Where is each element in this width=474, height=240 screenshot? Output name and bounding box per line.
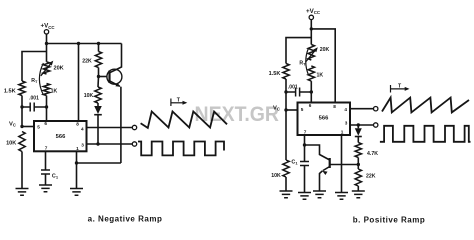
VCC terminal (a) xyxy=(44,30,48,34)
resistor 10K (b) xyxy=(283,110,289,177)
node base divider (b) xyxy=(357,163,360,166)
svg-text:3: 3 xyxy=(345,120,348,125)
svg-text:b. Positive Ramp: b. Positive Ramp xyxy=(353,216,425,225)
label 20K (b) xyxy=(320,47,330,53)
capacitor C1 (b) xyxy=(300,162,309,193)
resistor 1.5K (b) xyxy=(283,64,289,80)
power +VCC label (a) xyxy=(40,23,55,30)
pin 7 (b) xyxy=(304,129,307,134)
wire 10K to ground (a) xyxy=(21,152,23,189)
svg-text:1: 1 xyxy=(341,130,344,135)
svg-text:22K: 22K xyxy=(366,173,376,179)
label 4.7K (b) xyxy=(367,151,378,157)
transistor Q2 collector (b) xyxy=(305,145,330,160)
svg-text:7: 7 xyxy=(45,145,48,150)
pin 3 (a) xyxy=(81,143,84,148)
pin 4 (a) xyxy=(81,127,84,132)
pin 1 (a) xyxy=(76,146,79,151)
wire pin7 down (b) xyxy=(304,135,306,162)
wire 4.7K to node (b) xyxy=(357,158,359,170)
svg-text:RT: RT xyxy=(299,60,306,66)
node VCC rail junction (a) xyxy=(45,42,48,45)
label 10K (b) xyxy=(271,173,281,179)
svg-text:1: 1 xyxy=(76,146,79,151)
svg-text:1K: 1K xyxy=(51,88,58,94)
node VC (a) xyxy=(20,125,23,128)
brace RT (b) xyxy=(306,49,309,75)
sawtooth negative ramp waveform (a) xyxy=(141,112,227,128)
wire 1K to pin6 (a) xyxy=(46,96,48,121)
node cap left (b) xyxy=(284,90,287,93)
node cap left (a) xyxy=(20,105,23,108)
wire base (b) xyxy=(330,164,358,166)
node cap right (b) xyxy=(310,90,313,93)
svg-text:10K: 10K xyxy=(84,93,94,99)
svg-text:10K: 10K xyxy=(6,140,16,146)
label C1 (b) xyxy=(291,159,298,165)
label .001 (a) xyxy=(29,96,39,102)
svg-text:7: 7 xyxy=(304,129,307,134)
pin 5 (b) xyxy=(301,107,304,112)
rheostat 20K (a) xyxy=(43,62,49,74)
svg-text:a. Negative Ramp: a. Negative Ramp xyxy=(88,215,163,224)
wire 1.5K to VC node (a) xyxy=(21,96,23,127)
node diode to pin3 line (a) xyxy=(96,142,99,145)
terminal pin3 output (a) xyxy=(132,142,136,146)
svg-text:4.7K: 4.7K xyxy=(367,151,378,157)
pin 6 (a) xyxy=(44,121,47,126)
resistor 1K (a) xyxy=(43,84,49,96)
wire 10K to ground (b) xyxy=(285,177,287,191)
transistor Q1 circle (a) xyxy=(107,69,122,84)
node base (a) xyxy=(97,75,100,78)
terminal pin3 output (b) xyxy=(374,123,378,127)
label 1.5K (b) xyxy=(269,71,281,77)
terminal pin4 output (a) xyxy=(132,125,136,129)
caption a xyxy=(88,215,163,224)
label .001 (b) xyxy=(288,84,298,90)
ground under 10K (a) xyxy=(16,189,29,196)
node 22K rail junction (a) xyxy=(97,42,100,45)
diode D1 (a) xyxy=(94,103,102,144)
ground under 22K (b) xyxy=(352,191,365,198)
pin 7 (a) xyxy=(45,145,48,150)
wire pin3 output (a) xyxy=(87,143,133,145)
wire pin8 drop (a) xyxy=(78,44,80,122)
label 22K (b) xyxy=(366,173,376,179)
resistor 1K (b) xyxy=(308,66,314,81)
pin 1 (b) xyxy=(341,130,344,135)
pin 3 (b) xyxy=(345,120,348,125)
label C1 (a) xyxy=(52,173,59,179)
wire pin4 output (a) xyxy=(87,127,133,129)
pin 8 (a) xyxy=(76,121,79,126)
power +VCC label (b) xyxy=(306,8,321,15)
resistor 4.7K (b) xyxy=(355,143,361,158)
label 1K (a) xyxy=(51,88,58,94)
svg-text:6: 6 xyxy=(44,121,47,126)
svg-text:10K: 10K xyxy=(271,173,281,179)
svg-text:C1: C1 xyxy=(52,173,59,179)
svg-text:22K: 22K xyxy=(82,58,92,64)
label VC (a) xyxy=(9,121,16,127)
wire pin1 down (b) xyxy=(341,135,343,193)
wire pin7 down (a) xyxy=(45,151,47,170)
label 566 (a) xyxy=(56,134,66,140)
wire base (a) xyxy=(99,76,108,78)
node pin7 collector junction (b) xyxy=(303,143,306,146)
VCC terminal (b) xyxy=(309,15,313,19)
brace RT (a) xyxy=(39,63,43,95)
pin 6 (b) xyxy=(309,103,312,108)
svg-text:6: 6 xyxy=(309,103,312,108)
wire left branch (b) xyxy=(286,38,311,64)
node pin8 rail junction (a) xyxy=(77,42,80,45)
svg-text:VC: VC xyxy=(273,105,280,111)
ground under pin1 (a) xyxy=(70,189,83,196)
wire emitter down (a) xyxy=(120,87,122,163)
diode D2 (b) xyxy=(355,125,362,143)
wire pin1 down (a) xyxy=(76,151,78,188)
terminal pin4 output (b) xyxy=(374,107,378,111)
VCC rail (a) xyxy=(47,43,122,45)
node pin3 diode junction (b) xyxy=(357,123,360,126)
svg-text:1.5K: 1.5K xyxy=(4,89,16,95)
svg-text:3: 3 xyxy=(81,143,84,148)
svg-text:566: 566 xyxy=(319,116,329,122)
ground under 10K (b) xyxy=(280,191,293,198)
VCC rail (b) xyxy=(311,29,335,103)
transistor Q1 collector (a) xyxy=(110,44,122,73)
transistor Q2 bar (b) xyxy=(329,158,331,168)
svg-text:RT: RT xyxy=(31,78,38,84)
ground under C1 (b) xyxy=(298,193,311,200)
capacitor .001 (b) xyxy=(286,88,311,97)
caption b xyxy=(353,216,425,225)
label RT (a) xyxy=(31,78,38,84)
wire VC to pin5 (a) xyxy=(22,126,34,128)
wire 22K to ground (b) xyxy=(357,186,359,191)
node VC (b) xyxy=(284,108,287,111)
resistor 22K (a) xyxy=(95,44,101,77)
transistor Q2 emitter (b) xyxy=(320,167,330,192)
svg-text:20K: 20K xyxy=(320,47,330,53)
svg-text:4: 4 xyxy=(344,107,347,112)
sawtooth positive ramp waveform (b) xyxy=(382,98,469,113)
resistor 10K discharge (a) xyxy=(95,77,101,104)
node pin1 emitter junction (a) xyxy=(75,161,78,164)
svg-text:1.5K: 1.5K xyxy=(269,71,281,77)
node cap right (a) xyxy=(45,105,48,108)
svg-text:20K: 20K xyxy=(53,66,63,72)
wire VCC down (b) xyxy=(310,20,312,45)
label 20K (a) xyxy=(53,66,63,72)
svg-text:C1: C1 xyxy=(291,159,298,165)
resistor 10K (a) xyxy=(19,132,25,152)
svg-text:.001: .001 xyxy=(288,84,298,90)
svg-text:5: 5 xyxy=(301,107,304,112)
capacitor .001 (a) xyxy=(22,103,46,112)
rheostat 20K (b) xyxy=(308,45,314,61)
wire VCC down (a) xyxy=(46,34,48,62)
wire pin4 output (b) xyxy=(350,108,374,110)
pin 8 (b) xyxy=(333,104,336,109)
ground under C1 (a) xyxy=(39,185,52,192)
resistor 1.5K (a) xyxy=(19,81,25,96)
label RT (b) xyxy=(299,60,306,66)
rheostat arrow (b) xyxy=(306,47,318,62)
ground under pin1 (b) xyxy=(335,193,348,200)
svg-text:.001: .001 xyxy=(29,96,39,102)
label 1.5K (a) xyxy=(4,89,16,95)
svg-text:4: 4 xyxy=(81,127,84,132)
label 10K discharge (a) xyxy=(84,93,94,99)
pin 5 (a) xyxy=(37,124,40,129)
pin 4 (b) xyxy=(344,107,347,112)
resistor 22K (b) xyxy=(355,169,361,186)
svg-text:566: 566 xyxy=(56,134,66,140)
wire pin3 output (b) xyxy=(350,124,374,126)
label VC (b) xyxy=(273,105,280,111)
label 10K (a) xyxy=(6,140,16,146)
square wave waveform (a) xyxy=(138,142,224,156)
label 22K (a) xyxy=(82,58,92,64)
transistor Q1 emitter (a) xyxy=(110,81,121,87)
transistor Q1 bar (a) xyxy=(108,71,110,84)
label 1K (b) xyxy=(316,72,323,78)
IC U2 566 box (b) xyxy=(298,103,351,136)
wire 1K to pin6 (b) xyxy=(310,81,312,102)
wire VC to pin5 (b) xyxy=(286,109,298,111)
wire 1.5K to VC node (b) xyxy=(285,79,287,110)
square wave waveform (b) xyxy=(380,126,471,142)
wire left branch (a) xyxy=(22,52,47,82)
wire pin1 to emitter (a) xyxy=(77,162,121,164)
period marker T (b) xyxy=(391,84,410,93)
svg-text:NEXT.GR: NEXT.GR xyxy=(195,103,280,126)
svg-text:VC: VC xyxy=(9,121,16,127)
capacitor C1 (a) xyxy=(41,170,50,185)
period marker T (a) xyxy=(171,97,187,106)
node VCC rail junction (b) xyxy=(310,27,313,30)
svg-text:1K: 1K xyxy=(316,72,323,78)
svg-text:8: 8 xyxy=(76,121,79,126)
label 566 (b) xyxy=(319,116,329,122)
svg-text:5: 5 xyxy=(37,124,40,129)
rheostat arrow (a) xyxy=(41,61,54,76)
watermark NEXT.GR xyxy=(195,103,280,126)
ground under emitter (b) xyxy=(313,191,326,198)
svg-text:8: 8 xyxy=(333,104,336,109)
IC U1 566 box (a) xyxy=(34,121,87,151)
